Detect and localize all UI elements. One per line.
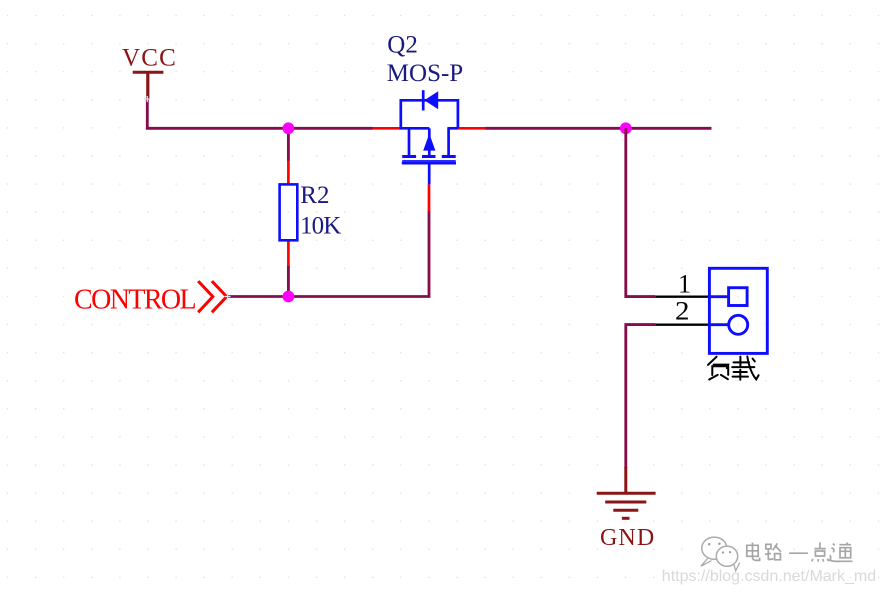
power symbol VCC xyxy=(133,72,164,99)
connector load pin 2 xyxy=(655,324,710,326)
wire rail right of Q2 xyxy=(485,127,712,130)
junction rail/R2 xyxy=(283,122,295,134)
svg-text:https://blog.csdn.net/Mark_md: https://blog.csdn.net/Mark_md xyxy=(662,568,876,585)
port CONTROL xyxy=(199,282,226,311)
wire R2 bottom to control net xyxy=(287,266,290,297)
svg-text:R2: R2 xyxy=(300,182,329,209)
svg-text:2: 2 xyxy=(675,297,690,326)
svg-text:MOS-P: MOS-P xyxy=(387,60,463,87)
svg-text:1: 1 xyxy=(678,269,691,298)
hotspot marker at VCC stem xyxy=(144,96,150,102)
wire rail to load pin1 xyxy=(626,128,656,296)
wire load pin2 to ground xyxy=(626,325,656,468)
transistor Q2 MOS-P body xyxy=(400,90,458,184)
watermark text 电路一点通 xyxy=(747,542,853,561)
svg-text:VCC: VCC xyxy=(122,45,177,72)
ground symbol xyxy=(597,467,656,519)
watermark logo xyxy=(701,537,740,571)
junction control/R2 xyxy=(283,291,295,303)
svg-text:CONTROL: CONTROL xyxy=(74,284,196,315)
junction rail/load xyxy=(620,122,632,134)
wire VCC to rail xyxy=(147,98,372,129)
resistor R2 xyxy=(280,161,298,269)
svg-text:10K: 10K xyxy=(300,212,341,239)
svg-text:Q2: Q2 xyxy=(387,32,418,59)
connector load pin 1 xyxy=(655,296,710,298)
connector label 负载 (load) xyxy=(708,356,759,379)
wire CONTROL to gate xyxy=(228,210,429,296)
wire rail to R2 top xyxy=(287,128,290,161)
svg-text:GND: GND xyxy=(600,525,655,551)
connector J1 load body xyxy=(709,268,767,353)
hotspot marker at CONTROL port xyxy=(225,294,231,300)
transistor Q2 pins xyxy=(373,128,486,211)
